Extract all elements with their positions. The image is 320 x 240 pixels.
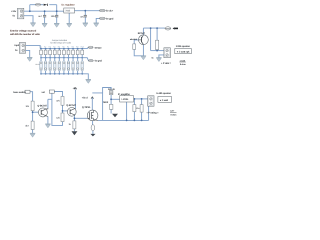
svg-text:+12v: +12v [11, 10, 17, 13]
svg-text:Q-BC547: Q-BC547 [37, 105, 47, 108]
svg-text:+ P rating =: + P rating = [146, 112, 159, 115]
svg-text:1.5W speaker: 1.5W speaker [176, 45, 190, 48]
svg-text:+5v d: +5v d [82, 96, 88, 99]
svg-text:with IN5 the number of volts: with IN5 the number of volts [10, 33, 41, 36]
svg-text:0v gnd: 0v gnd [106, 17, 114, 20]
svg-text:Q-TIP31: Q-TIP31 [82, 106, 91, 109]
svg-text:12v dc: 12v dc [108, 88, 116, 91]
svg-text:MK2: MK2 [103, 101, 109, 104]
svg-text:7805: 7805 [65, 10, 71, 13]
svg-text:vol: vol [42, 91, 46, 94]
svg-text:+ P deb =: + P deb = [161, 62, 172, 65]
svg-text:◄ 1 watt: ◄ 1 watt [159, 99, 168, 102]
svg-text:Dc regulator: Dc regulator [62, 3, 75, 6]
svg-text:BC547: BC547 [138, 32, 146, 35]
svg-text:to 8R speaker: to 8R speaker [156, 92, 171, 95]
svg-text:0v gnd: 0v gnd [95, 60, 103, 63]
svg-text:5v dc+: 5v dc+ [106, 10, 114, 13]
svg-text:12v²: 12v² [170, 110, 174, 113]
svg-text:IC amplifier: IC amplifier [118, 93, 130, 96]
svg-text:◄ 1 watt spk: ◄ 1 watt spk [176, 50, 190, 53]
svg-text:8 ohm: 8 ohm [180, 63, 186, 66]
svg-text:tempo: tempo [95, 47, 102, 50]
svg-text:100n: 100n [51, 15, 56, 18]
svg-text:8 ohm: 8 ohm [171, 114, 177, 117]
svg-text:electret: electret [130, 38, 137, 41]
svg-text:LM386: LM386 [122, 98, 130, 101]
svg-text:for the tempo of n volts: for the tempo of n volts [51, 42, 72, 45]
svg-text:inp2: inp2 [15, 44, 20, 47]
svg-text:base switch: base switch [13, 91, 26, 94]
svg-text:Q-BC547: Q-BC547 [66, 104, 76, 107]
